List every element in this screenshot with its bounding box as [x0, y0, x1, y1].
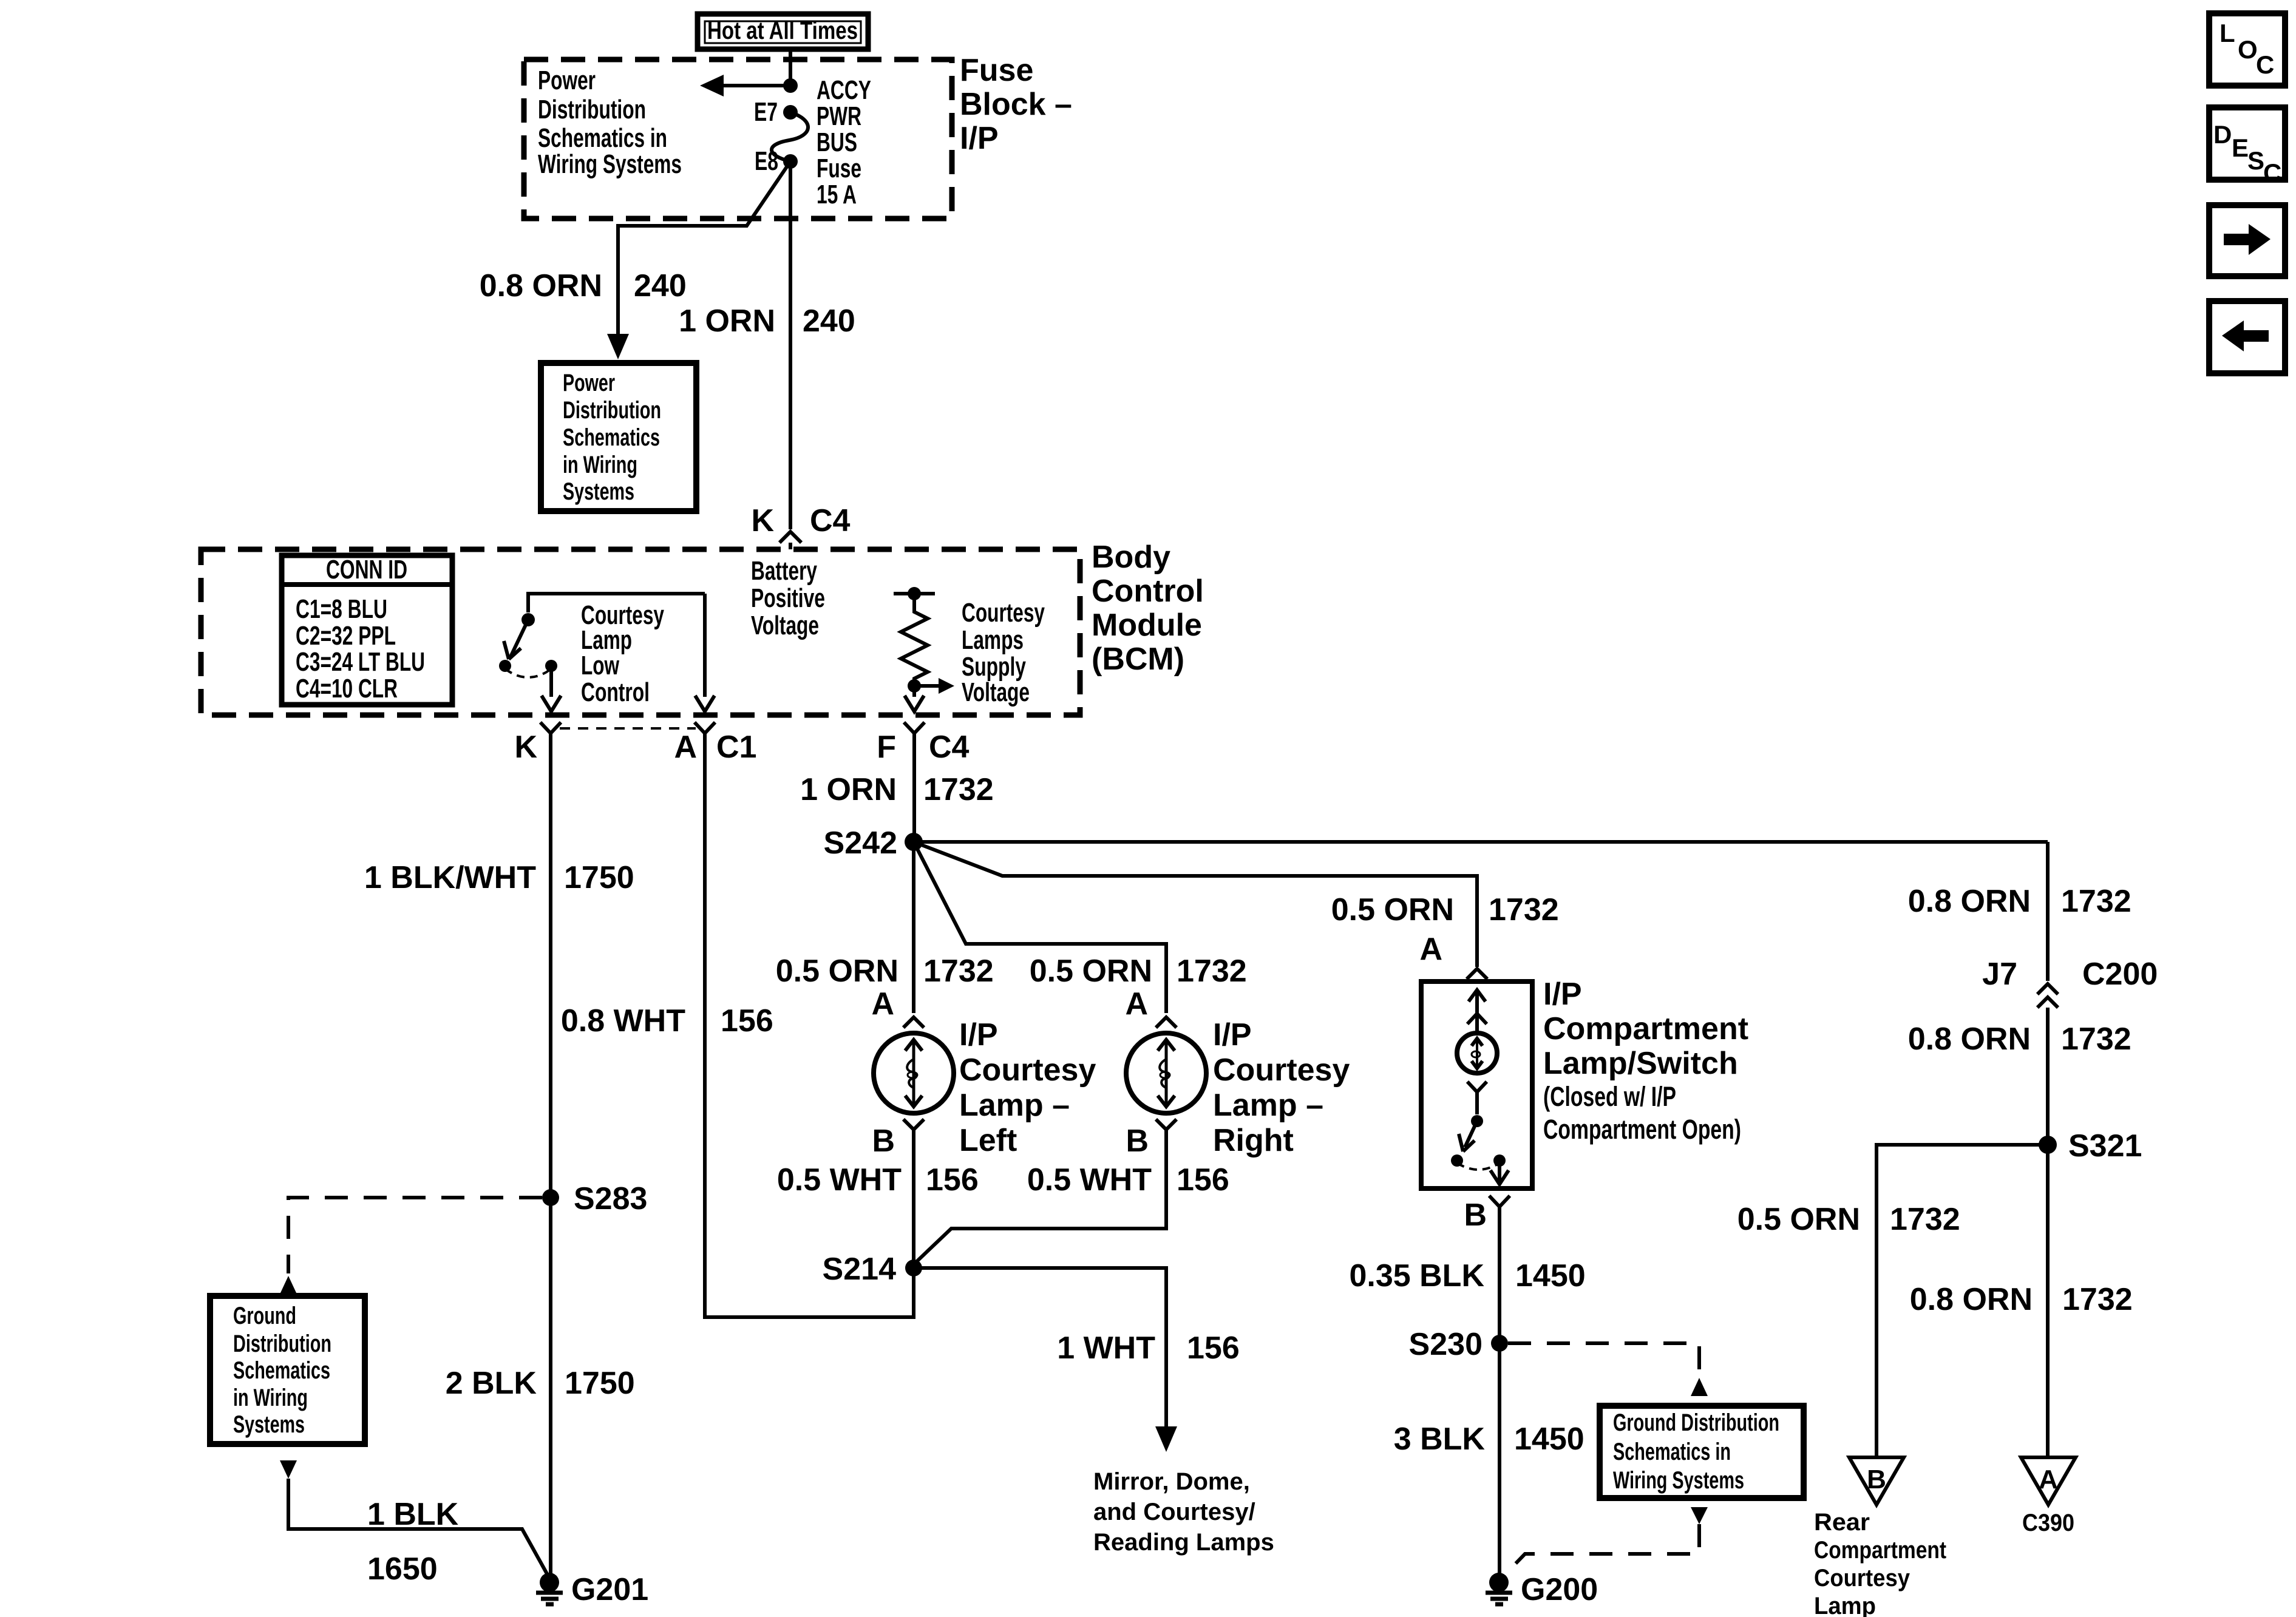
wire left lamp B 0.5 WHT 156 to S214 [912, 1130, 915, 1268]
svg-text:Distribution: Distribution [563, 397, 661, 424]
svg-text:(Closed w/ I/P: (Closed w/ I/P [1543, 1081, 1676, 1112]
svg-text:Positive: Positive [751, 583, 825, 613]
svg-text:0.8 ORN: 0.8 ORN [1908, 1022, 2031, 1057]
svg-text:Power: Power [538, 66, 596, 95]
svg-text:C4=10 CLR: C4=10 CLR [296, 674, 398, 703]
svg-text:1750: 1750 [564, 860, 634, 895]
svg-text:Distribution: Distribution [233, 1331, 331, 1357]
svg-text:0.8 ORN: 0.8 ORN [1910, 1282, 2033, 1317]
svg-text:C: C [2263, 158, 2281, 187]
svg-text:Control: Control [1092, 574, 1204, 609]
svg-text:Power: Power [563, 370, 615, 396]
svg-text:E7: E7 [754, 97, 778, 127]
svg-text:in Wiring: in Wiring [563, 452, 637, 478]
connector C4 pin K chevron at BCM top [779, 532, 801, 543]
svg-text:C390: C390 [2022, 1510, 2074, 1536]
svg-text:A: A [1125, 986, 1148, 1022]
fuse block dashed box (Fuse Block - I/P) [524, 59, 952, 219]
svg-text:K: K [751, 503, 774, 538]
wire 2 BLK 1750 S283 to G201 [549, 1198, 552, 1575]
svg-text:C1: C1 [716, 730, 756, 765]
svg-text:O: O [2238, 35, 2258, 64]
svg-text:15 A: 15 A [817, 180, 857, 209]
svg-text:Courtesy: Courtesy [959, 1053, 1096, 1088]
switch pivot node [1471, 1115, 1483, 1127]
svg-text:Systems: Systems [233, 1411, 305, 1438]
svg-text:240: 240 [634, 268, 687, 303]
svg-text:156: 156 [721, 1003, 773, 1039]
wire from Hot at All Times into fuse block [789, 51, 792, 86]
svg-text:Compartment: Compartment [1543, 1011, 1748, 1046]
svg-text:240: 240 [803, 303, 855, 339]
svg-text:1650: 1650 [367, 1551, 438, 1587]
I/P Courtesy Lamp Right [1126, 1033, 1206, 1113]
svg-text:A: A [1419, 932, 1442, 967]
svg-text:Wiring Systems: Wiring Systems [1613, 1467, 1744, 1494]
svg-text:1732: 1732 [2061, 1022, 2131, 1057]
svg-text:Reading Lamps: Reading Lamps [1093, 1529, 1274, 1556]
svg-text:E: E [2232, 134, 2249, 162]
nav icon box DESC [2209, 107, 2285, 187]
arrowhead down below right ground box [1691, 1507, 1708, 1524]
connector chevron A left lamp [903, 1017, 924, 1028]
svg-text:Wiring Systems: Wiring Systems [538, 149, 682, 179]
svg-text:F: F [877, 730, 896, 765]
svg-text:0.5 ORN: 0.5 ORN [1737, 1202, 1860, 1237]
arrowhead down into Power Distribution box [607, 334, 629, 359]
svg-text:S230: S230 [1409, 1327, 1483, 1362]
svg-text:1 WHT: 1 WHT [1057, 1331, 1155, 1366]
wire 1 BLK 1650 from ground box to G201 [288, 1479, 549, 1578]
svg-text:1 ORN: 1 ORN [800, 772, 897, 807]
svg-text:1732: 1732 [923, 772, 994, 807]
switch dashed arc [505, 669, 551, 677]
svg-text:Module: Module [1092, 608, 1202, 643]
svg-text:1732: 1732 [1890, 1202, 1960, 1237]
svg-text:0.5 WHT: 0.5 WHT [1027, 1162, 1152, 1198]
switch internal feed arrow up [1469, 990, 1486, 1002]
resistor top node [908, 587, 921, 600]
svg-text:1450: 1450 [1515, 1258, 1586, 1293]
svg-text:Compartment: Compartment [1814, 1537, 1946, 1564]
svg-text:156: 156 [1187, 1331, 1240, 1366]
svg-text:C4: C4 [929, 730, 970, 765]
I/P Courtesy Lamp Left [874, 1033, 954, 1113]
wire bus arrow to left (power distribution) [721, 84, 790, 87]
svg-text:L: L [2220, 19, 2235, 47]
svg-text:0.5 ORN: 0.5 ORN [776, 954, 898, 989]
dashed link S230 to ground distribution box (right) [1508, 1343, 1699, 1375]
svg-text:J7: J7 [1982, 957, 2017, 992]
CONN ID table box [282, 555, 452, 705]
svg-text:I/P: I/P [1543, 977, 1582, 1012]
wire 3 BLK 1450 S230 to G200 [1498, 1343, 1501, 1575]
node E8 [783, 154, 798, 169]
wire from contact down through box edge [1498, 1161, 1501, 1184]
wire A C1 0.8 WHT 156 down and over to S214 [705, 733, 914, 1317]
svg-text:Lamp: Lamp [1814, 1593, 1876, 1617]
svg-text:G201: G201 [571, 1572, 648, 1607]
connector chevron B at switch bottom [1489, 1196, 1510, 1207]
svg-text:A: A [2039, 1465, 2058, 1494]
node E7 [783, 105, 798, 120]
ground G201 [536, 1572, 648, 1607]
svg-text:Left: Left [959, 1123, 1017, 1158]
svg-text:C1=8 BLU: C1=8 BLU [296, 594, 387, 624]
svg-text:1750: 1750 [565, 1366, 635, 1401]
svg-text:S321: S321 [2068, 1128, 2142, 1164]
svg-text:A: A [871, 986, 894, 1022]
internal chevron below lamp [1467, 1082, 1487, 1092]
wire S321 branch left 0.5 ORN 1732 to B [1877, 1145, 2048, 1456]
svg-text:Battery: Battery [751, 556, 817, 586]
dashed link from right ground box to G200 [1507, 1524, 1699, 1572]
wire S214 to mirror dome lamps 1 WHT 156 [914, 1268, 1166, 1428]
resistor bottom node [908, 679, 921, 693]
svg-text:Lamps: Lamps [962, 625, 1024, 655]
switch contact node right [545, 660, 557, 672]
connector chevron B right lamp [1156, 1119, 1177, 1130]
internal chevron [1467, 1014, 1487, 1024]
svg-text:E8: E8 [755, 146, 778, 176]
svg-text:S283: S283 [574, 1181, 647, 1216]
svg-text:Courtesy: Courtesy [1814, 1565, 1911, 1592]
svg-text:1 BLK: 1 BLK [367, 1497, 459, 1532]
fuse ACCY PWR BUS Fuse 15 A (squiggle symbol) [772, 112, 808, 161]
wire S242 branch to right lamp 0.5 ORN 1732 [914, 842, 1166, 1013]
svg-text:Control: Control [581, 677, 650, 707]
svg-text:I/P: I/P [960, 121, 999, 156]
svg-text:0.8 ORN: 0.8 ORN [1908, 884, 2031, 919]
svg-text:1732: 1732 [2061, 884, 2131, 919]
off-page triangle B (Rear Compartment Courtesy Lamp) [1849, 1457, 1904, 1505]
svg-text:Low: Low [581, 651, 620, 680]
wire B 0.35 BLK 1450 down to S230 [1498, 1207, 1501, 1343]
arrowhead down at BCM edge (K) [542, 696, 561, 711]
splice S214 [905, 1259, 922, 1276]
arrowhead down at BCM edge (A) [695, 696, 715, 711]
splice S242 [905, 833, 923, 851]
svg-text:B: B [1464, 1198, 1487, 1233]
svg-text:1732: 1732 [2062, 1282, 2133, 1317]
svg-text:S: S [2247, 146, 2264, 175]
svg-text:156: 156 [1177, 1162, 1229, 1198]
svg-text:A: A [674, 730, 697, 765]
svg-text:Fuse: Fuse [817, 154, 861, 183]
svg-text:Right: Right [1213, 1123, 1294, 1158]
wire S321 down 0.8 ORN 1732 to A (C390) [2046, 1145, 2050, 1456]
header box "Hot at All Times" [698, 14, 868, 49]
arrowhead left [700, 75, 724, 97]
svg-text:Rear: Rear [1814, 1509, 1870, 1536]
wire K 1 BLK/WHT 1750 down to S283 [549, 733, 552, 1198]
dashed link S283 to ground distribution box [288, 1198, 542, 1273]
wire S242 to right main run 0.8 ORN 1732 [914, 840, 2048, 844]
switch blade with arrow [1465, 1121, 1477, 1147]
connector chevron B left lamp [903, 1119, 924, 1130]
wire S242 branch to I/P compartment lamp/switch 0.5 ORN 1732 [914, 842, 1477, 967]
splice S230 [1491, 1335, 1508, 1352]
svg-text:Block –: Block – [960, 87, 1072, 122]
svg-text:Lamp –: Lamp – [959, 1088, 1070, 1123]
svg-text:3 BLK: 3 BLK [1394, 1422, 1486, 1457]
svg-text:Lamp –: Lamp – [1213, 1088, 1323, 1123]
svg-text:Ground Distribution: Ground Distribution [1613, 1409, 1779, 1436]
svg-text:156: 156 [926, 1162, 979, 1198]
svg-text:G200: G200 [1521, 1572, 1598, 1607]
svg-text:(BCM): (BCM) [1092, 642, 1184, 677]
svg-text:C3=24 LT BLU: C3=24 LT BLU [296, 647, 425, 677]
wire S242 down to left lamp 0.5 ORN 1732 [912, 842, 915, 1013]
svg-text:K: K [514, 730, 537, 765]
svg-text:1450: 1450 [1514, 1422, 1584, 1457]
switch blade with arrow [511, 620, 528, 657]
arrow right (supply voltage tap) [914, 684, 940, 688]
connector chevron A right lamp [1156, 1017, 1177, 1028]
svg-text:S242: S242 [824, 825, 897, 861]
svg-text:C2=32 PPL: C2=32 PPL [296, 621, 396, 651]
reference box Ground Distribution Schematics in Wiring Systems (right) [1600, 1406, 1804, 1498]
I/P Compartment Lamp/Switch box [1421, 981, 1532, 1188]
node junction at bus [783, 78, 798, 93]
svg-text:B: B [1126, 1124, 1149, 1159]
svg-text:S214: S214 [823, 1252, 897, 1287]
switch contact node left [499, 660, 511, 672]
svg-text:Systems: Systems [563, 478, 634, 505]
svg-text:BUS: BUS [817, 127, 857, 157]
wire 1 ORN 240 from fuse E8 down to BCM [789, 161, 792, 529]
svg-text:PWR: PWR [817, 101, 861, 131]
svg-text:Hot at All Times: Hot at All Times [707, 16, 858, 44]
connector chevron A at switch top [1467, 969, 1487, 979]
svg-text:CONN ID: CONN ID [326, 555, 407, 585]
svg-text:0.5 ORN: 0.5 ORN [1030, 954, 1152, 989]
off-page triangle A (C390) [2021, 1457, 2076, 1505]
svg-text:Body: Body [1092, 540, 1170, 575]
svg-text:D: D [2213, 120, 2232, 149]
wire from switch contact down to K pin [549, 666, 553, 697]
arrowhead down (to reading lamps) [1155, 1426, 1177, 1452]
switch pivot node [521, 613, 535, 626]
svg-text:B: B [872, 1124, 895, 1159]
reference box Power Distribution Schematics in Wiring Systems [541, 363, 696, 511]
wire right lamp B 0.5 WHT 156 to S214 [914, 1130, 1166, 1264]
splice S283 [542, 1189, 559, 1206]
nav icon box LOC [2209, 13, 2285, 86]
svg-text:B: B [1867, 1465, 1886, 1494]
svg-text:Compartment Open): Compartment Open) [1543, 1114, 1741, 1145]
svg-text:0.8 ORN: 0.8 ORN [480, 268, 602, 303]
svg-text:Schematics: Schematics [233, 1357, 330, 1384]
svg-text:1 ORN: 1 ORN [679, 303, 775, 339]
reference box Ground Distribution Schematics in Wiring Systems (left) [210, 1296, 365, 1444]
svg-text:Voltage: Voltage [962, 677, 1030, 707]
thin dashed connector tie K to A [560, 727, 696, 730]
svg-text:Fuse: Fuse [960, 53, 1033, 88]
svg-text:Voltage: Voltage [751, 611, 819, 640]
connector chevron K at BCM bottom [540, 722, 561, 733]
BCM internal switch wire (L from A/C1 wire) [528, 594, 705, 612]
svg-text:2 BLK: 2 BLK [446, 1366, 537, 1401]
arrowhead down at BCM edge (F) [905, 696, 924, 711]
switch contact node left [1451, 1154, 1463, 1167]
svg-text:I/P: I/P [1213, 1017, 1252, 1053]
nav icon box arrow right [2209, 205, 2285, 276]
BCM dashed box (Body Control Module) [201, 549, 1080, 715]
wire resistor down to F pin [912, 686, 916, 697]
arrowhead down below left ground box [280, 1460, 297, 1479]
svg-text:1732: 1732 [923, 954, 994, 989]
svg-text:C4: C4 [810, 503, 851, 538]
svg-text:Schematics in: Schematics in [538, 123, 667, 153]
inline connector C200 pin J7 double chevron [2037, 984, 2058, 994]
svg-text:Distribution: Distribution [538, 95, 646, 124]
svg-text:C200: C200 [2082, 957, 2158, 992]
wire switch feed down to A pin [703, 594, 707, 697]
svg-text:Mirror, Dome,: Mirror, Dome, [1093, 1468, 1250, 1495]
nav icon box arrow left [2209, 301, 2285, 373]
svg-text:0.35 BLK: 0.35 BLK [1349, 1258, 1484, 1293]
connector chevron F C4 at BCM bottom [904, 722, 925, 733]
svg-text:Schematics in: Schematics in [1613, 1439, 1731, 1465]
connector chevron A C1 at BCM bottom [695, 722, 715, 733]
wire E8 branch to 0.8 ORN 240 [618, 161, 790, 335]
svg-text:Lamp/Switch: Lamp/Switch [1543, 1046, 1738, 1081]
svg-text:I/P: I/P [959, 1017, 998, 1053]
svg-text:1732: 1732 [1489, 892, 1559, 927]
switch dashed arc [1457, 1163, 1500, 1170]
arrowhead up (ground ref) [280, 1276, 297, 1294]
svg-text:1 BLK/WHT: 1 BLK/WHT [364, 860, 536, 895]
wire F C4 1 ORN 1732 down to S242 [912, 733, 916, 842]
svg-text:1732: 1732 [1177, 954, 1247, 989]
svg-text:and Courtesy/: and Courtesy/ [1093, 1499, 1255, 1525]
svg-text:ACCY: ACCY [817, 75, 871, 105]
svg-text:0.5 ORN: 0.5 ORN [1331, 892, 1454, 927]
splice S321 [2039, 1136, 2057, 1154]
BCM internal resistor bus stub [894, 592, 935, 595]
svg-text:0.8 WHT: 0.8 WHT [561, 1003, 685, 1039]
svg-text:0.5 WHT: 0.5 WHT [777, 1162, 902, 1198]
ground G200 [1486, 1572, 1598, 1607]
lamp (switch illumination) circle [1457, 1033, 1497, 1073]
svg-text:in Wiring: in Wiring [233, 1385, 308, 1411]
svg-text:Courtesy: Courtesy [1213, 1053, 1350, 1088]
svg-text:Courtesy: Courtesy [962, 598, 1045, 628]
svg-text:C: C [2256, 50, 2274, 79]
arrowhead up (right ground ref) [1691, 1378, 1708, 1396]
resistor R (courtesy lamps supply) [901, 594, 928, 686]
svg-text:Ground: Ground [233, 1303, 296, 1329]
switch contact node right [1493, 1154, 1506, 1167]
svg-text:Schematics: Schematics [563, 424, 660, 451]
